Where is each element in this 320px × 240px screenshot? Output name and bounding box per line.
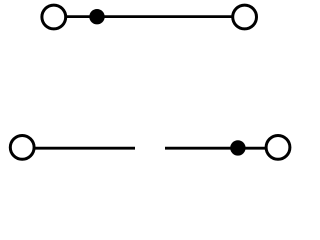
wire (lower level, left segment) xyxy=(34,147,135,150)
terminal contact circle (upper left) xyxy=(42,5,66,29)
wire (upper level, horizontal) xyxy=(66,15,232,18)
wire (lower level, right segment) xyxy=(165,147,266,150)
terminal contact circle (lower right) xyxy=(266,136,290,160)
junction dot (upper level) xyxy=(89,9,104,24)
terminal contact circle (lower left) xyxy=(10,136,34,160)
junction dot (lower level) xyxy=(230,140,245,155)
terminal contact circle (upper right) xyxy=(233,5,257,29)
